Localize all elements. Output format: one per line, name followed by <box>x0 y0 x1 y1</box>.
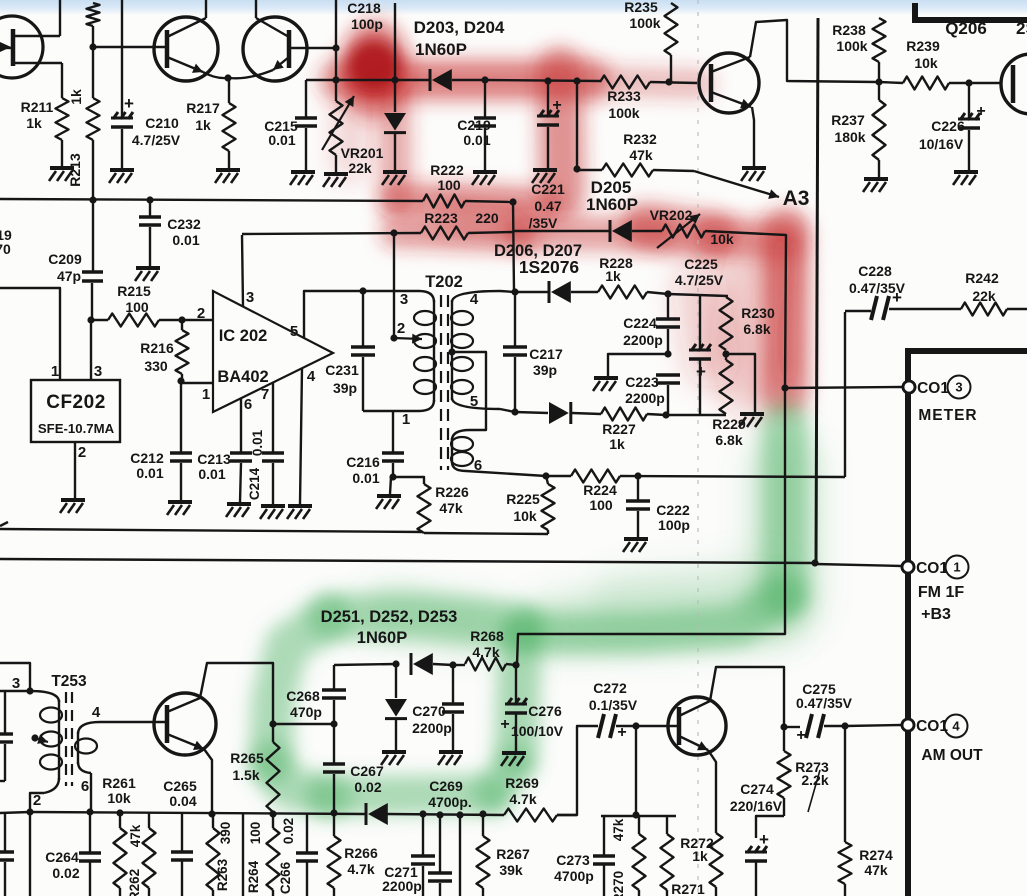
resistor R232 47k <box>577 131 694 177</box>
svg-text:10/16V: 10/16V <box>919 136 964 152</box>
svg-text:3: 3 <box>94 363 102 380</box>
capacitor C269 4700p <box>428 778 472 896</box>
ground C270 <box>438 752 463 765</box>
svg-text:C225: C225 <box>684 256 718 272</box>
label D206 D207 1S2076 <box>494 242 582 277</box>
resistor R225 10k <box>506 476 554 534</box>
node C231 top <box>359 287 366 294</box>
svg-text:C270: C270 <box>412 703 446 719</box>
svg-text:C218: C218 <box>347 0 381 16</box>
resistor R224 100 <box>571 470 845 514</box>
resistor R215 100 <box>91 283 213 327</box>
svg-text:C210: C210 <box>145 115 179 131</box>
node C270 top <box>449 661 456 668</box>
svg-text:C269: C269 <box>429 778 463 794</box>
node C222 top <box>634 472 641 479</box>
svg-text:100: 100 <box>437 177 461 193</box>
wire meter to AM detector (green path) <box>517 390 785 665</box>
wire AM bias row <box>30 812 577 815</box>
node T253 pin2 <box>26 808 33 815</box>
svg-text:1N60P: 1N60P <box>586 195 638 214</box>
capacitor C225 4.7/25V <box>675 256 724 415</box>
wire D205 row <box>514 230 609 232</box>
node R265 top <box>269 720 276 727</box>
svg-text:0.02: 0.02 <box>52 865 79 881</box>
node rail corner <box>509 198 516 205</box>
node R215 junction <box>87 316 94 323</box>
resistor R211 1k <box>21 63 69 166</box>
node C264 top <box>86 808 93 815</box>
diode D207 1S2076 <box>515 402 601 424</box>
svg-text:1N60P: 1N60P <box>357 629 407 647</box>
resistor R274 47k <box>839 726 893 896</box>
capacitor C231 39p <box>325 291 375 411</box>
svg-text:1k: 1k <box>195 117 211 133</box>
svg-text:100p: 100p <box>658 517 690 533</box>
svg-text:R271: R271 <box>671 881 705 896</box>
svg-text:R235: R235 <box>624 0 658 15</box>
ground C213 <box>226 504 251 517</box>
node C217 top <box>511 288 518 295</box>
svg-text:D203, D204: D203, D204 <box>414 18 505 37</box>
node T253 tap <box>31 734 38 741</box>
node R216 bottom <box>177 377 184 384</box>
node T202 pin2 <box>390 334 397 341</box>
svg-text:2200p: 2200p <box>623 332 663 348</box>
ground C232 <box>135 268 160 281</box>
svg-text:R270: R270 <box>611 871 626 896</box>
wire Q4 emitter down <box>204 749 212 814</box>
svg-text:100: 100 <box>589 497 613 513</box>
svg-text:R227: R227 <box>602 421 636 437</box>
capacitor C270 2200p <box>412 665 464 750</box>
svg-text:4.7k: 4.7k <box>509 791 536 807</box>
svg-text:C221: C221 <box>531 181 565 197</box>
diode D205 1N60P <box>610 220 662 242</box>
svg-text:C217: C217 <box>529 346 563 362</box>
svg-text:4.7/25V: 4.7/25V <box>132 132 181 148</box>
svg-text:22k: 22k <box>348 160 372 176</box>
capacitor C274 220/16V <box>730 781 784 896</box>
svg-text:4: 4 <box>92 704 101 721</box>
svg-text:+: + <box>500 716 509 733</box>
node C224 bottom <box>664 350 671 357</box>
wire R269 up to C272 <box>557 726 598 815</box>
svg-text:1S2076: 1S2076 <box>519 257 580 277</box>
resistor R242 22k <box>935 270 1027 316</box>
wire Q3 collector loop <box>750 20 877 82</box>
wire Q3 emitter down <box>752 107 754 166</box>
svg-text:220/16V: 220/16V <box>730 798 783 814</box>
wire det out row <box>666 414 726 416</box>
svg-text:4: 4 <box>952 719 960 734</box>
capacitor C212 0.01 <box>130 381 192 500</box>
svg-text:R237: R237 <box>831 112 865 128</box>
svg-text:0.47/35V: 0.47/35V <box>796 695 853 711</box>
svg-text:6: 6 <box>81 778 89 795</box>
svg-text:4.7k: 4.7k <box>347 861 374 877</box>
blue header band <box>0 0 1027 15</box>
node rail2 divider <box>811 559 818 566</box>
capacitor C275 0.47/35V <box>784 681 853 744</box>
resistor R222 100 <box>423 162 465 208</box>
svg-text:1: 1 <box>51 363 59 380</box>
wire C216 ground stub <box>390 477 391 494</box>
node R261 top <box>116 809 123 816</box>
svg-text:R268: R268 <box>470 628 504 644</box>
svg-text:470p: 470p <box>290 704 322 720</box>
transistor Q206 (partial at edge) <box>945 19 1027 114</box>
label D251 D252 D253 <box>321 608 458 647</box>
svg-text:3: 3 <box>246 289 254 306</box>
svg-text:R263: R263 <box>215 858 230 891</box>
transistor Q (FET, left edge) <box>0 0 62 78</box>
ground C214 <box>260 506 285 519</box>
svg-text:1: 1 <box>202 386 210 403</box>
wire T253 pin4 to Q4 base <box>100 721 167 723</box>
svg-text:390: 390 <box>218 822 233 845</box>
svg-text:100/10V: 100/10V <box>511 723 564 739</box>
svg-text:A3: A3 <box>783 187 810 210</box>
svg-text:1N60P: 1N60P <box>415 40 467 59</box>
wire IC pin6 down to C213 <box>240 398 242 452</box>
svg-text:C274: C274 <box>740 781 774 797</box>
svg-text:R232: R232 <box>623 131 657 147</box>
svg-text:+: + <box>124 94 134 113</box>
resistor R268 4.7k <box>453 628 516 671</box>
svg-text:R217: R217 <box>186 100 220 116</box>
svg-text:1k: 1k <box>26 115 42 131</box>
resistor R239 10k <box>879 38 1000 90</box>
svg-text:C272: C272 <box>593 680 627 696</box>
wire lower bias row <box>601 815 676 817</box>
resistor R238 100k <box>832 18 885 82</box>
svg-text:R211: R211 <box>21 99 54 115</box>
wire rail2 B3 <box>0 559 815 563</box>
wire detector row <box>485 80 600 81</box>
wire column x460 <box>459 815 461 896</box>
node bias row x636 <box>632 811 639 818</box>
capacitor C228 0.47/35V <box>845 263 935 477</box>
wire R213 down to C209 <box>92 140 94 272</box>
wire rail1 <box>0 522 548 534</box>
svg-text:D251, D252, D253: D251, D252, D253 <box>321 608 458 626</box>
resistor R227 1k <box>601 408 666 453</box>
capacitor C215 0.01 <box>264 80 317 170</box>
terminal CO1-4 AM OUT <box>902 715 983 765</box>
wire pin2 left and down <box>0 812 30 896</box>
svg-text:47p: 47p <box>57 268 81 284</box>
node C226 top <box>965 79 972 86</box>
svg-text:+: + <box>796 727 805 744</box>
ground C210 <box>109 170 134 183</box>
resistor R229 6.8k <box>712 354 746 448</box>
svg-text:C214: C214 <box>247 467 262 500</box>
filter CF202 box <box>31 363 120 461</box>
svg-text:0.01: 0.01 <box>352 470 379 486</box>
wire to CO1-1 <box>815 564 902 566</box>
svg-text:C224: C224 <box>623 315 657 331</box>
wire Q5 collector loop <box>710 667 784 727</box>
resistor R264 100 <box>246 812 280 896</box>
capacitor C222 100p <box>626 476 690 537</box>
node R232 row <box>573 165 580 172</box>
svg-text:CO1: CO1 <box>917 380 949 397</box>
svg-text:T202: T202 <box>425 273 463 291</box>
capacitor C226 10/16V <box>919 83 986 170</box>
svg-text:VR201: VR201 <box>341 145 384 161</box>
resistor R230 6.8k <box>668 294 775 350</box>
node C268 bottom <box>330 720 337 727</box>
svg-text:C232: C232 <box>167 216 201 232</box>
svg-text:1.5k: 1.5k <box>232 767 259 783</box>
resistor R235 100k <box>624 0 677 82</box>
svg-text:R238: R238 <box>832 22 866 38</box>
svg-text:R266: R266 <box>344 845 378 861</box>
node emitter join <box>224 74 231 81</box>
resistor R216 330 <box>140 320 188 381</box>
svg-text:C216: C216 <box>346 454 380 470</box>
resistor R213 column (1k upper) <box>68 3 100 105</box>
transistor Q4 (AM IF amp) <box>154 693 216 755</box>
svg-text:0.04: 0.04 <box>169 793 196 809</box>
wire bias column x636 <box>635 726 637 815</box>
svg-text:CO1: CO1 <box>916 718 948 735</box>
svg-text:R216: R216 <box>140 340 174 356</box>
capacitor C232 0.01 <box>139 200 201 266</box>
svg-text:R215: R215 <box>117 283 151 299</box>
ground D203 <box>382 172 407 185</box>
resistor R223 220 <box>242 210 514 240</box>
svg-text:R226: R226 <box>435 484 469 500</box>
svg-text:0.01: 0.01 <box>463 132 490 148</box>
svg-text:39p: 39p <box>533 362 557 378</box>
resistor R237 180k <box>831 82 885 177</box>
wire C218 column <box>335 0 337 48</box>
capacitor C221 0.47/35V <box>529 81 565 231</box>
node C271 top <box>419 810 426 817</box>
wire pin6 row right <box>546 475 571 477</box>
variable resistor VR201 22k <box>322 80 384 176</box>
wire IC pin1 <box>181 382 213 384</box>
svg-text:R224: R224 <box>583 482 617 498</box>
svg-text:1k: 1k <box>692 848 708 864</box>
svg-text:C222: C222 <box>656 502 690 518</box>
node Q4 emitter row <box>208 810 215 817</box>
svg-text:METER: METER <box>918 407 977 424</box>
resistor R266 4.7k <box>328 813 378 896</box>
resistor R273 2.2k <box>778 727 829 816</box>
edge text fragments <box>0 227 12 257</box>
ground C222 <box>623 539 648 552</box>
svg-text:R222: R222 <box>430 162 464 178</box>
wire AM det corner <box>334 664 396 665</box>
capacitor C268 470p <box>286 665 346 724</box>
ground IC pin4 <box>287 506 312 519</box>
svg-text:1: 1 <box>953 560 960 575</box>
wire bias rail y200 <box>0 199 513 202</box>
wire to D203 column <box>306 79 395 81</box>
svg-text:R267: R267 <box>496 846 530 862</box>
node C217 bottom <box>511 408 518 415</box>
thick section border top right <box>912 3 1027 21</box>
ground C226 <box>953 172 978 185</box>
svg-text:180k: 180k <box>834 129 865 145</box>
capacitor C224 2200p <box>623 294 680 353</box>
wire T202 pin5 row stub <box>500 409 515 412</box>
svg-text:C228: C228 <box>858 263 892 279</box>
svg-text:4: 4 <box>307 368 316 385</box>
node R267 top <box>479 810 486 817</box>
svg-text:C209: C209 <box>48 251 82 267</box>
capacitor C276 100/10V <box>500 665 563 751</box>
svg-text:C223: C223 <box>625 374 659 390</box>
svg-text:47k: 47k <box>611 818 626 841</box>
resistor R270 47k <box>611 816 646 896</box>
svg-text:4700p.: 4700p. <box>428 794 472 810</box>
node R223/D203 column <box>390 229 397 236</box>
svg-text:0.02: 0.02 <box>281 818 296 844</box>
svg-text:1k: 1k <box>609 436 625 452</box>
svg-text:CO1: CO1 <box>916 560 948 577</box>
node C272 out <box>632 722 639 729</box>
transistor Q1 (NPN left of pair) <box>154 0 228 81</box>
wire pin5 row to T202 <box>363 290 419 292</box>
svg-text:3: 3 <box>955 380 962 395</box>
node C267 bottom <box>330 809 337 816</box>
svg-text:4700p: 4700p <box>554 868 594 884</box>
wire rail corner down <box>513 202 514 292</box>
node rail R213 <box>89 196 96 203</box>
svg-text:47k: 47k <box>128 824 143 847</box>
arrow to A3 <box>694 171 779 197</box>
transistor Q2 (NPN right of pair, mirrored) <box>230 0 336 81</box>
wire plain column x243 <box>242 814 244 896</box>
node R216 top <box>178 316 185 323</box>
svg-text:T253: T253 <box>51 673 87 690</box>
variable resistor VR202 10k <box>650 207 734 248</box>
node column x460 <box>456 811 463 818</box>
node meter junction <box>781 384 788 391</box>
svg-text:5: 5 <box>290 323 298 340</box>
resistor R213 (lower) <box>67 47 100 187</box>
node C275 left <box>780 723 787 730</box>
svg-text:C266: C266 <box>278 861 293 894</box>
ground CF202 <box>60 500 85 513</box>
resistor R261 10k <box>102 775 136 896</box>
node R228 out <box>664 290 671 297</box>
capacitor C267 0.02 <box>323 724 384 813</box>
node R264 top <box>269 810 276 817</box>
capacitor C216 0.01 <box>346 411 404 486</box>
svg-text:AM OUT: AM OUT <box>921 747 983 764</box>
transformer T202 <box>397 273 500 474</box>
label D205 1N60P <box>586 178 638 214</box>
svg-text:BA402: BA402 <box>217 368 268 386</box>
svg-text:4.7/25V: 4.7/25V <box>675 272 724 288</box>
capacitor C209 47p <box>48 251 103 320</box>
ground D252 <box>381 752 406 765</box>
svg-text:100k: 100k <box>608 105 639 121</box>
svg-text:0.47: 0.47 <box>534 198 561 214</box>
wire R232 column <box>576 81 578 169</box>
svg-text:2: 2 <box>78 444 86 461</box>
arrow T253 tap <box>35 738 48 742</box>
svg-text:CF202: CF202 <box>46 392 106 413</box>
svg-text:R265: R265 <box>230 750 264 766</box>
resistor R267 39k <box>477 814 530 896</box>
svg-text:0.01: 0.01 <box>268 132 295 148</box>
wire C231 bottom to T202 pin1 <box>363 410 419 412</box>
svg-text:1k: 1k <box>68 89 84 105</box>
svg-text:1: 1 <box>402 411 410 428</box>
svg-text:R242: R242 <box>965 270 999 286</box>
op-amp IC202 BA402 triangle <box>197 289 333 413</box>
wire pin4 row <box>500 291 515 292</box>
svg-text:R264: R264 <box>246 860 261 893</box>
diode D253 1N60P <box>411 653 453 675</box>
svg-text:0.01: 0.01 <box>250 429 265 456</box>
node R225 top <box>542 472 549 479</box>
svg-text:R239: R239 <box>906 38 940 54</box>
ground C276 <box>501 753 526 766</box>
capacitor C214 0.01 <box>247 429 284 504</box>
ground C215 <box>290 172 315 185</box>
wire R265 top to C268 <box>273 723 334 725</box>
wire input box corner <box>0 663 30 691</box>
wire to CO1-4 <box>845 725 902 726</box>
svg-text:100: 100 <box>125 299 149 315</box>
ground C216 <box>376 496 401 509</box>
capacitor C218 100p (column) <box>347 0 395 80</box>
svg-text:C276: C276 <box>528 703 562 719</box>
node R230 bottom <box>722 350 729 357</box>
node C221 top <box>544 77 551 84</box>
node C269 top <box>436 811 443 818</box>
svg-text:4: 4 <box>470 291 479 308</box>
svg-text:2: 2 <box>33 792 41 809</box>
wire IC pin7 down to C214 <box>272 382 274 452</box>
svg-text:10k: 10k <box>914 55 938 71</box>
svg-text:47k: 47k <box>629 147 653 163</box>
node C275 right <box>841 722 848 729</box>
svg-text:0.01: 0.01 <box>198 466 225 482</box>
resistor R226 47k <box>393 477 469 533</box>
terminal CO1-3 METER <box>903 376 978 425</box>
svg-text:C264: C264 <box>45 849 79 865</box>
wire IC pin4 down <box>300 368 302 504</box>
svg-text:39p: 39p <box>333 380 357 396</box>
wire Q5 emitter to R272 <box>708 750 716 833</box>
ground R237 <box>863 179 888 192</box>
svg-text:R269: R269 <box>505 775 539 791</box>
resistor R272 1k <box>680 833 722 896</box>
svg-text:7: 7 <box>261 386 269 403</box>
resistor R271 <box>661 816 705 896</box>
ground R217 <box>215 170 240 183</box>
red highlighter trail <box>338 30 786 392</box>
svg-text:2: 2 <box>197 305 205 322</box>
capacitor left mid edge <box>0 691 13 781</box>
resistor R217 1k <box>186 78 235 168</box>
capacitor C219 0.01 <box>457 80 496 170</box>
svg-text:C219: C219 <box>457 117 491 133</box>
wire C272 to Q5 base <box>636 725 679 727</box>
transistor Q3 (FM buffer) <box>699 53 759 113</box>
svg-text:C273: C273 <box>556 852 590 868</box>
wire meter row <box>785 387 902 388</box>
svg-text:39k: 39k <box>499 862 523 878</box>
